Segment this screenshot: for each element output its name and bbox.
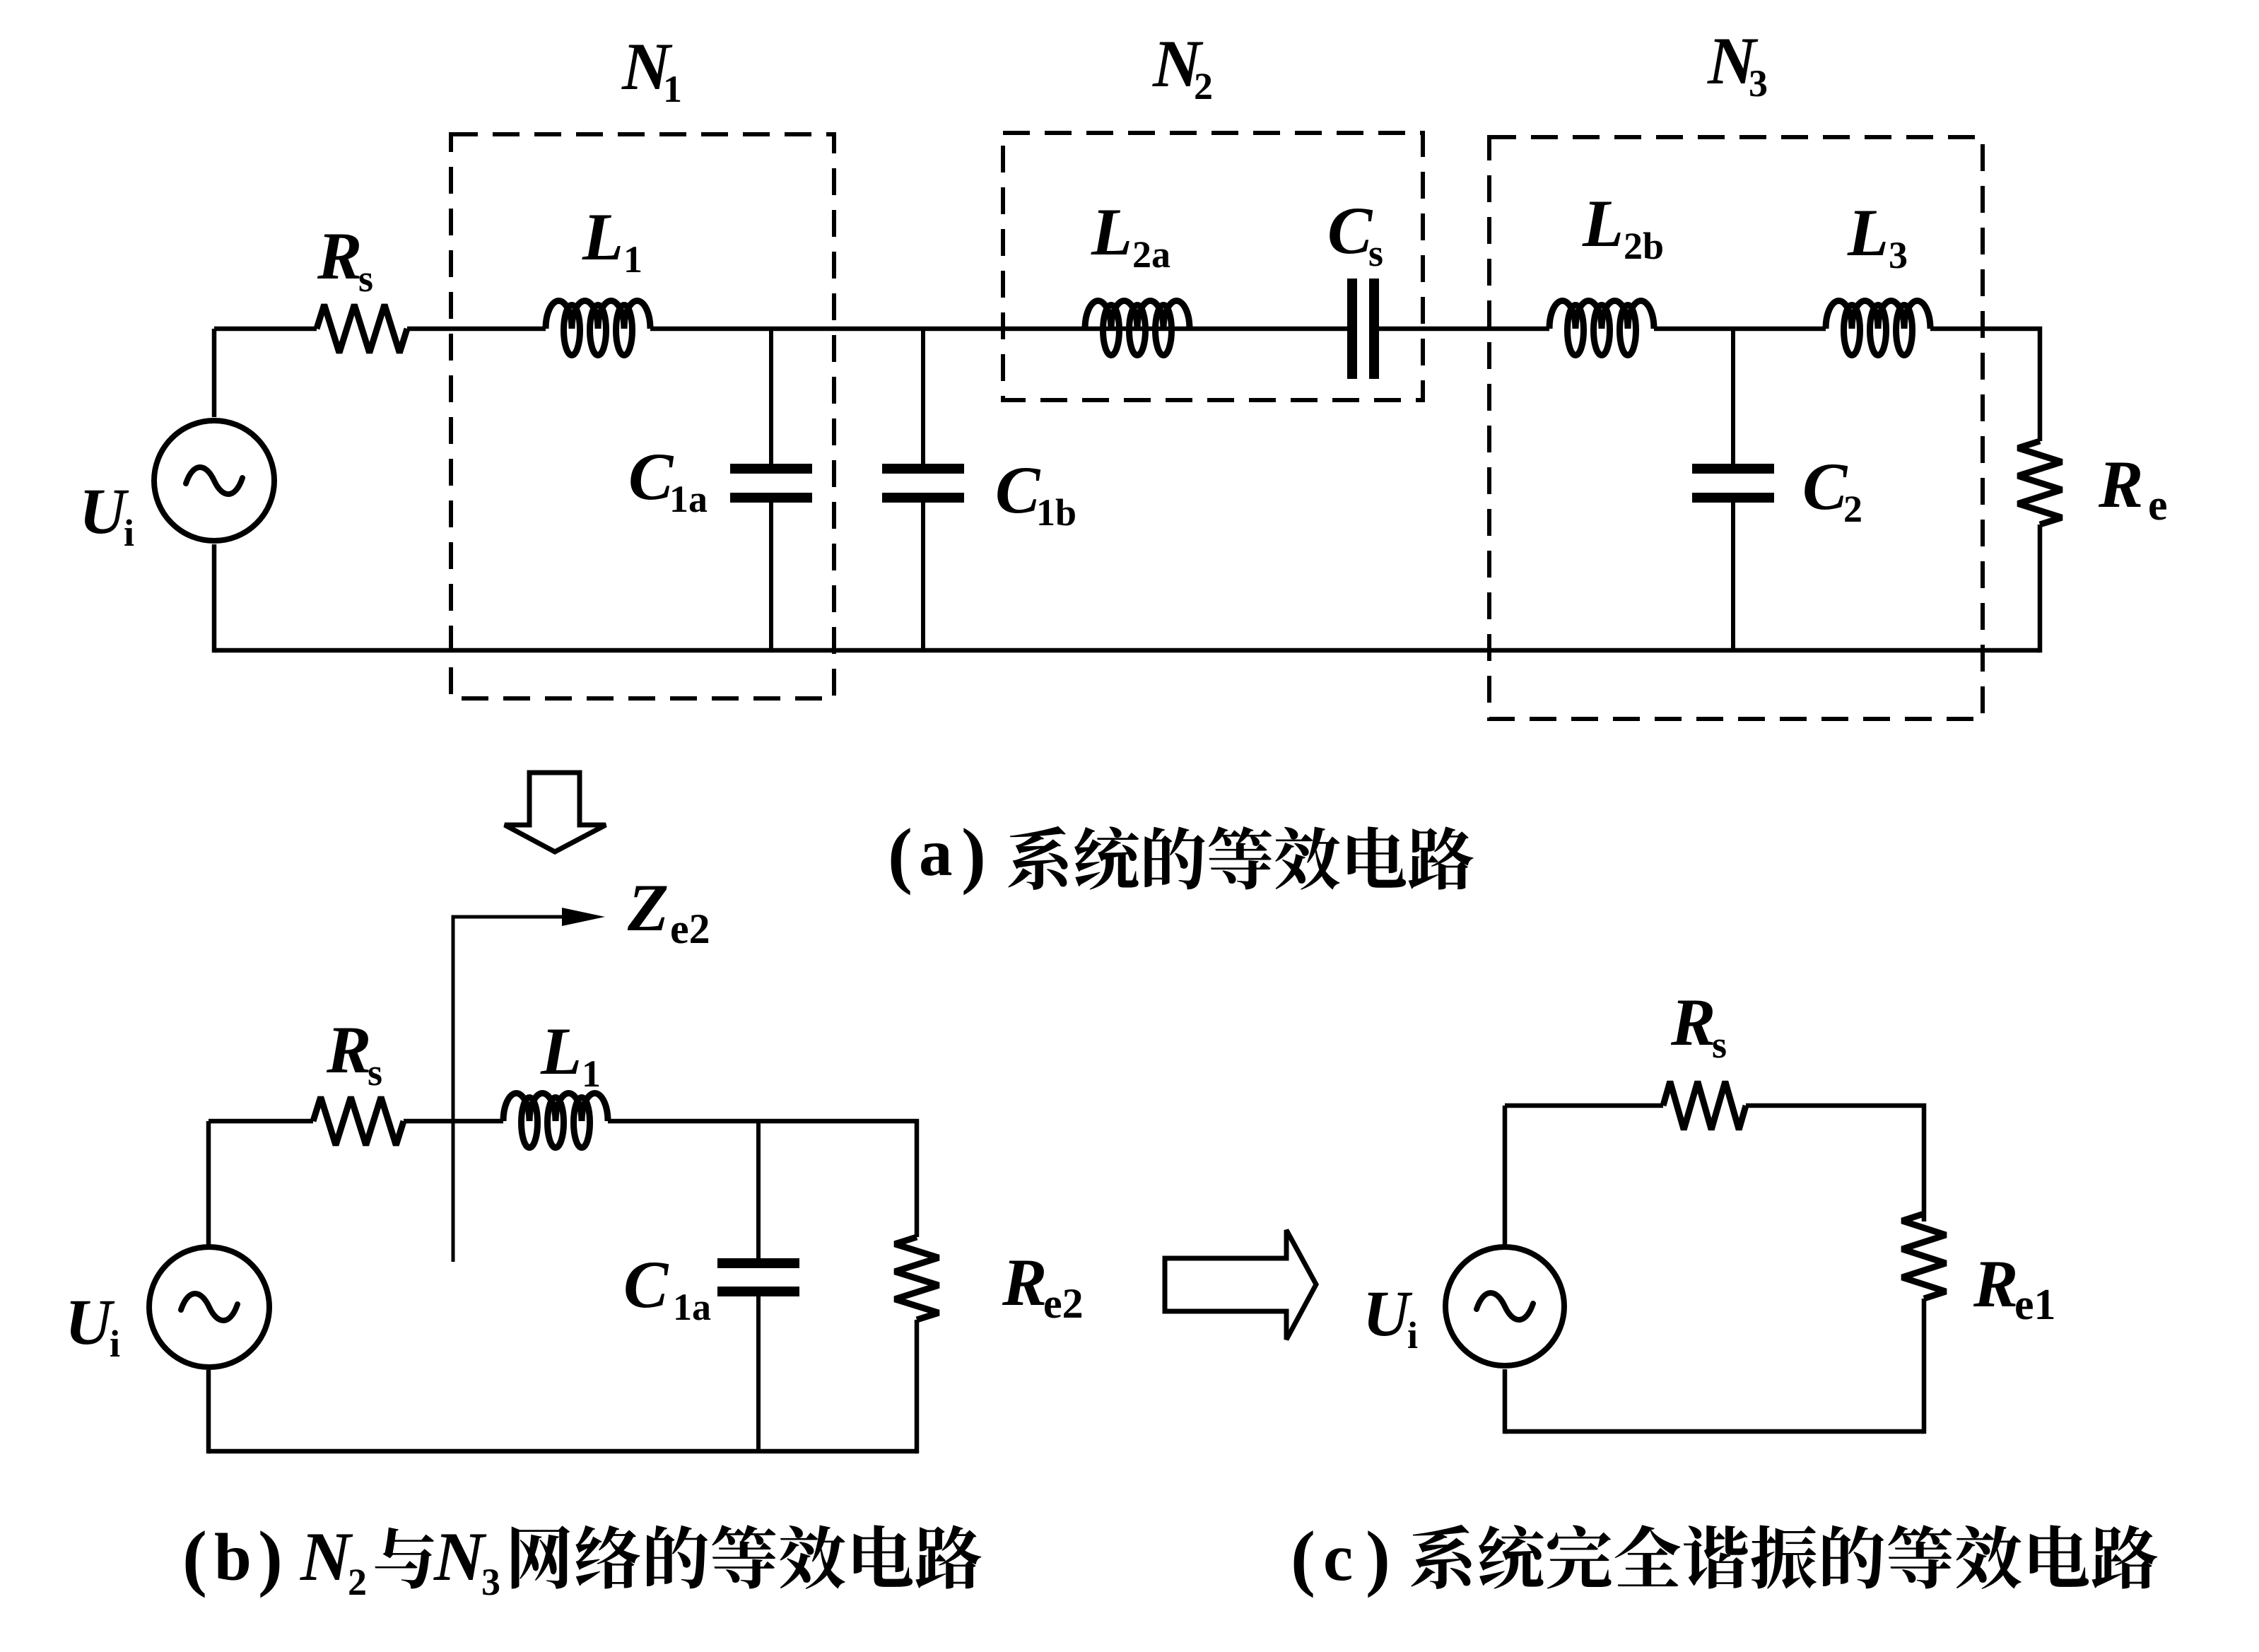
- svg-text:C: C: [1802, 449, 1848, 524]
- svg-text:L: L: [1091, 194, 1132, 269]
- svg-text:e1: e1: [2014, 1281, 2056, 1329]
- svg-text:a: a: [919, 815, 953, 890]
- svg-text:C: C: [623, 1247, 669, 1322]
- svg-text:2: 2: [348, 1561, 367, 1603]
- inductor L3: [1826, 301, 1930, 356]
- svg-text:): ): [961, 813, 986, 896]
- label C1b (a): [995, 452, 1076, 534]
- svg-text:U: U: [79, 475, 129, 547]
- svg-text:2a: 2a: [1132, 233, 1170, 276]
- dashed box N3: [1489, 137, 1983, 719]
- svg-text:R: R: [1002, 1245, 1047, 1320]
- wire: (c) Re1 to bottom rail: [1922, 1299, 1927, 1434]
- label C1a (b): [623, 1247, 711, 1328]
- svg-text:R: R: [326, 1012, 371, 1087]
- svg-text:s: s: [1712, 1024, 1727, 1066]
- svg-text:N: N: [433, 1518, 487, 1595]
- svg-text:Z: Z: [627, 870, 669, 945]
- svg-text:2: 2: [1194, 65, 1213, 107]
- label N2: [1152, 26, 1213, 107]
- probe Ze2 arrow: [453, 908, 605, 1262]
- wire: (a) Rs to L1: [407, 327, 546, 332]
- capacitor C1a: [730, 329, 812, 650]
- svg-text:R: R: [317, 218, 362, 293]
- wire: (a) top rail left segment: [214, 327, 317, 332]
- svg-text:R: R: [1670, 985, 1715, 1060]
- resistor Re2: [895, 1237, 939, 1320]
- label Rs (c): [1670, 985, 1727, 1066]
- svg-text:R: R: [1973, 1246, 2018, 1321]
- resistor Re1: [1902, 1214, 1946, 1299]
- svg-text:C: C: [628, 439, 674, 514]
- label N3: [1707, 23, 1768, 105]
- svg-text:s: s: [368, 1051, 382, 1094]
- label C1a (a): [628, 439, 708, 520]
- wire: (b) left rail top: [206, 1121, 211, 1246]
- svg-text:2b: 2b: [1624, 225, 1664, 267]
- svg-text:): ): [1366, 1516, 1390, 1598]
- resistor Rs (a): [317, 305, 407, 353]
- svg-text:1: 1: [623, 238, 643, 281]
- label Cs: [1327, 193, 1383, 274]
- wire: (c) Rs to top-right corner down to Re1: [1746, 1106, 1924, 1222]
- source Ui (a): [154, 421, 274, 541]
- label L3: [1847, 195, 1908, 276]
- caption (c): [1291, 1516, 2157, 1598]
- wire: (a) bottom rail: [214, 648, 2040, 653]
- wire: (a) left rail bottom: [212, 544, 217, 652]
- resistor Re: [2018, 441, 2062, 525]
- capacitor C1b: [882, 329, 964, 650]
- svg-text:1: 1: [582, 1053, 601, 1095]
- wire: (b) left rail bottom: [206, 1370, 211, 1453]
- svg-text:L: L: [1847, 195, 1889, 270]
- svg-text:(: (: [888, 813, 913, 896]
- resistor Rs (c): [1663, 1082, 1746, 1130]
- wire: (b) Rs to L1: [404, 1119, 503, 1124]
- wire: (a) L2b to L3 junction: [1654, 327, 1826, 332]
- wire: (a) Cs to L2b: [1379, 327, 1549, 332]
- caption (a): [888, 813, 1474, 896]
- svg-text:s: s: [358, 257, 373, 300]
- svg-text:s: s: [1368, 232, 1383, 274]
- svg-text:R: R: [2098, 447, 2143, 522]
- svg-text:U: U: [65, 1286, 115, 1358]
- capacitor C2: [1692, 329, 1774, 650]
- wire: (a) L3 to top-right corner and down to Re: [1930, 329, 2040, 441]
- arrow: right hollow arrow (b)->(c): [1165, 1230, 1316, 1340]
- inductor L2b: [1549, 301, 1654, 356]
- wire: (b) bottom rail: [209, 1449, 917, 1454]
- label Rs (a): [317, 218, 373, 300]
- wire: (c) bottom rail: [1505, 1429, 1924, 1434]
- label Ui (c): [1363, 1277, 1418, 1357]
- svg-text:e2: e2: [670, 906, 710, 952]
- svg-text:(: (: [182, 1516, 207, 1598]
- label Ui (b): [65, 1286, 120, 1365]
- svg-text:e: e: [2148, 481, 2168, 529]
- label Ui (a): [79, 475, 134, 554]
- svg-text:1: 1: [663, 68, 682, 110]
- wire: (b) L1 to right corner: [608, 1121, 917, 1237]
- label L2a: [1091, 194, 1170, 276]
- svg-text:L: L: [540, 1014, 582, 1089]
- source Ui (b): [149, 1247, 269, 1367]
- label L1 (b): [540, 1014, 601, 1095]
- svg-text:i: i: [110, 1323, 120, 1365]
- label Rs (b): [326, 1012, 382, 1094]
- label L1 (a): [582, 199, 643, 281]
- wire: (c) left rail bottom: [1503, 1369, 1508, 1434]
- dashed box N1: [451, 134, 834, 698]
- wire: (a) left rail top: [212, 329, 217, 417]
- inductor L1 (a): [546, 301, 650, 356]
- svg-text:L: L: [582, 199, 623, 274]
- label Ze2: [627, 870, 710, 952]
- label Re: [2098, 447, 2168, 529]
- wire: (a) L1 to Cs via junctions C1a C1b: [650, 327, 1347, 332]
- svg-text:3: 3: [1889, 234, 1908, 276]
- svg-text:C: C: [1327, 193, 1373, 268]
- inductor L1 (b): [503, 1094, 608, 1148]
- svg-text:C: C: [995, 452, 1041, 527]
- wire: (b) top rail left segment: [209, 1119, 313, 1124]
- label Re2: [1002, 1245, 1084, 1327]
- svg-text:1a: 1a: [673, 1286, 711, 1328]
- caption (b): [182, 1516, 981, 1603]
- svg-text:b: b: [214, 1520, 252, 1595]
- source Ui (c): [1445, 1247, 1564, 1366]
- wire: (c) top rail left segment: [1505, 1103, 1663, 1108]
- svg-text:U: U: [1363, 1277, 1413, 1349]
- wire: (c) left rail top: [1503, 1106, 1508, 1245]
- svg-text:e2: e2: [1043, 1280, 1084, 1327]
- label C2: [1802, 449, 1862, 530]
- svg-text:(: (: [1291, 1516, 1315, 1598]
- svg-text:3: 3: [1749, 62, 1768, 105]
- svg-text:1b: 1b: [1036, 491, 1076, 534]
- wire: (b) Re2 to bottom rail: [915, 1320, 920, 1453]
- dashed box N2: [1003, 133, 1423, 400]
- label Re1: [1973, 1246, 2056, 1329]
- svg-text:3: 3: [481, 1561, 500, 1603]
- svg-text:c: c: [1323, 1520, 1353, 1595]
- svg-text:i: i: [124, 512, 134, 554]
- svg-text:): ): [258, 1516, 283, 1598]
- svg-text:i: i: [1407, 1314, 1418, 1357]
- arrow: down hollow arrow (a)->(b): [505, 773, 606, 852]
- svg-text:1a: 1a: [669, 478, 708, 520]
- capacitor Cs (series): [1347, 279, 1379, 379]
- label N1: [621, 29, 682, 110]
- resistor Rs (b): [313, 1097, 404, 1145]
- capacitor C1a (b): [717, 1121, 799, 1451]
- svg-text:N: N: [300, 1518, 353, 1595]
- wire: (a) Re to bottom rail: [2038, 525, 2043, 652]
- label L2b: [1582, 186, 1664, 267]
- svg-text:2: 2: [1843, 488, 1862, 530]
- svg-text:L: L: [1582, 186, 1624, 261]
- inductor L2a: [1085, 301, 1190, 356]
